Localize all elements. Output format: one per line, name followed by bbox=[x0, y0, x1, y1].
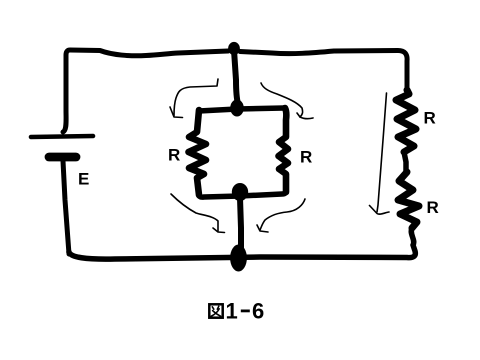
svg-text:E: E bbox=[78, 170, 89, 189]
svg-text:R: R bbox=[427, 198, 439, 217]
svg-text:1: 1 bbox=[226, 299, 238, 324]
svg-text:R: R bbox=[424, 109, 436, 128]
svg-text:R: R bbox=[300, 148, 312, 167]
svg-text:R: R bbox=[168, 146, 180, 165]
svg-text:6: 6 bbox=[252, 299, 264, 324]
